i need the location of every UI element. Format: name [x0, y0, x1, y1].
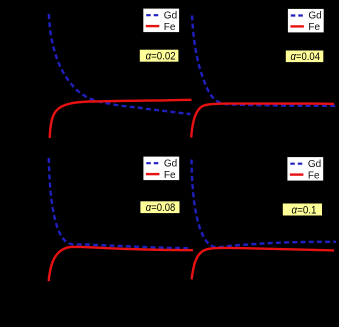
label panel 4 alpha=0.1 box — [282, 203, 322, 216]
svg-text:α=0.08: α=0.08 — [146, 202, 176, 214]
panel 4 (alpha=0.1) curve Gd blue dashed — [192, 160, 337, 248]
svg-text:Fe: Fe — [164, 170, 176, 181]
legend panel 1 Fe line sample — [146, 25, 160, 27]
svg-text:Gd: Gd — [164, 10, 177, 21]
legend panel 2 Gd dashed sample — [291, 14, 303, 16]
svg-text:Fe: Fe — [308, 22, 320, 33]
svg-text:Gd: Gd — [164, 158, 177, 169]
label panel 3 alpha=0.08 box — [140, 201, 180, 214]
panel 3 (alpha=0.08) curve Gd blue dashed — [49, 158, 191, 248]
panel 2 curve Fe red solid — [191, 104, 334, 138]
svg-text:Fe: Fe — [308, 170, 320, 181]
legend panel 3 Fe line sample — [146, 173, 160, 175]
legend panel 3 Gd dashed sample — [146, 162, 158, 164]
panel 2 (alpha=0.04) curve Gd blue dashed — [192, 16, 336, 106]
svg-text:Gd: Gd — [308, 11, 321, 22]
svg-text:Fe: Fe — [164, 22, 176, 33]
panel 1 curve Fe red solid — [50, 100, 192, 138]
svg-text:α=0.1: α=0.1 — [292, 205, 317, 217]
label panel 1 alpha=0.02 box — [139, 49, 179, 62]
legend panel 1 Gd dashed sample — [146, 14, 158, 16]
label panel 2 alpha=0.04 box — [285, 50, 324, 63]
panel 3 curve Fe red solid — [49, 247, 193, 281]
legend panel 2 Fe line sample — [290, 25, 304, 27]
legend panel 4 Gd dashed sample — [290, 163, 302, 165]
panel 1 (alpha=0.02) curve Gd blue dashed — [49, 14, 191, 114]
legend panel 3 box — [143, 156, 180, 181]
legend panel 4 box — [287, 157, 324, 182]
legend panel 2 box — [287, 8, 324, 33]
svg-text:Gd: Gd — [308, 159, 321, 170]
svg-text:α=0.04: α=0.04 — [291, 51, 321, 63]
svg-text:α=0.02: α=0.02 — [146, 51, 176, 63]
legend panel 1 box — [143, 8, 180, 32]
legend panel 4 Fe line sample — [290, 173, 304, 175]
panel 4 curve Fe red solid — [192, 248, 334, 280]
